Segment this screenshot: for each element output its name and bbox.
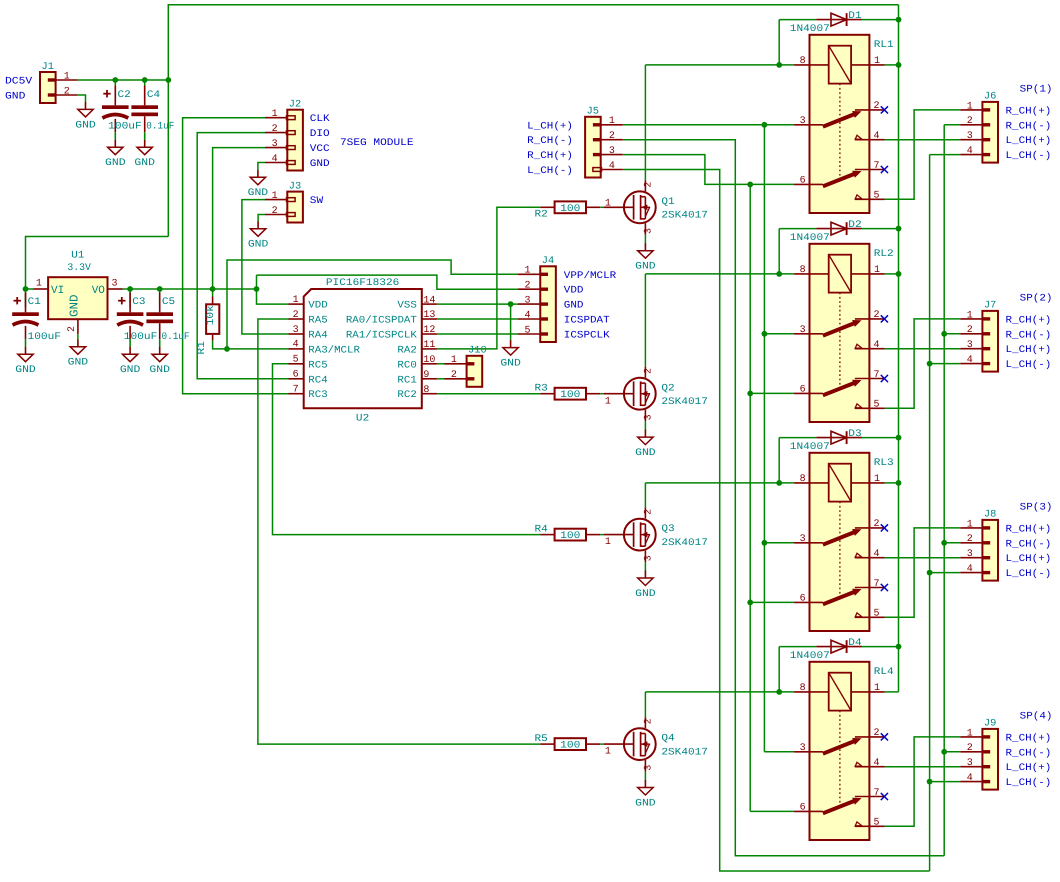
wire R_CH(-) right bus vertical [943,125,945,856]
wire Q1 source to GND [644,235,646,245]
svg-text:RL4: RL4 [874,667,894,678]
ground of C4 [134,140,155,169]
wire RL2 pin 8 to Q2 drain [645,273,794,275]
svg-text:100: 100 [560,204,580,215]
wire Q3 drain vertical [644,483,646,508]
svg-text:VSS: VSS [397,301,416,312]
svg-text:PIC16F18326: PIC16F18326 [326,278,400,289]
svg-text:GND: GND [310,159,330,170]
resistor R3 100 [540,388,600,401]
wire to C5 [159,289,161,307]
svg-text:2: 2 [967,116,973,127]
wire J1 pin 2 to GND [78,95,86,102]
wire R to Q4 gate [600,743,604,745]
svg-text:C4: C4 [147,90,160,101]
wire RL4 pin 1 to +5V bus [885,691,899,693]
svg-text:5: 5 [873,400,879,411]
svg-text:1: 1 [874,56,880,67]
wire D2 anode vertical [778,229,780,274]
svg-text:1: 1 [272,191,278,202]
ground Q2 source [635,430,656,459]
svg-text:4: 4 [873,340,879,351]
wire R to Q2 gate [600,393,604,395]
wire to C4 [144,80,146,101]
resistor R1 10k [205,297,219,341]
svg-text:RA0/ICSPDAT: RA0/ICSPDAT [346,315,417,327]
svg-text:GND: GND [635,262,656,273]
svg-text:SP(2): SP(2) [1020,293,1053,305]
ground of C3 [120,347,141,376]
svg-text:10k: 10k [205,305,217,325]
ground J4 pin 3 [500,340,521,369]
svg-text:1: 1 [36,278,42,289]
regulator U1 3.3V [33,277,122,334]
wire RC0 to J10 pin 1 [437,363,445,365]
wire 3.3V rail [123,288,257,290]
wire D1 cathode to +5V bus [862,19,899,21]
svg-text:GND: GND [564,301,584,312]
wire CLK J2.1 to RC3 [183,118,289,394]
svg-text:RC1: RC1 [397,375,416,386]
svg-text:4: 4 [873,131,879,142]
svg-text:7: 7 [873,161,879,172]
wire R_CH(-) bus to J7 pin 2 [944,333,960,335]
svg-text:2: 2 [967,534,973,545]
svg-text:R_CH(+): R_CH(+) [1006,732,1052,744]
svg-text:1: 1 [272,109,278,120]
transistor Q4 2SK4017 [604,717,656,772]
svg-text:4: 4 [967,564,973,575]
svg-text:3: 3 [967,340,973,351]
relay RL3 [794,453,885,631]
svg-text:J2: J2 [289,100,301,111]
svg-text:2SK4017: 2SK4017 [661,397,708,408]
svg-text:4: 4 [873,758,879,769]
svg-text:1: 1 [967,728,973,739]
capacitor C4 0.1uF [131,86,158,140]
no-connect X on RL4 pin 7 [881,793,888,800]
svg-text:RC0: RC0 [397,360,416,371]
wire VDD to U2 pin 1 [257,275,289,304]
svg-text:1: 1 [874,683,880,694]
svg-text:100uF: 100uF [28,332,62,343]
svg-text:R2: R2 [535,210,548,221]
svg-text:7SEG MODULE: 7SEG MODULE [340,138,414,149]
svg-text:D3: D3 [848,429,861,440]
microcontroller U2 PIC16F18326 [289,289,437,408]
wire L_CH(-) bus to J9 pin 4 [930,781,961,783]
svg-text:GND: GND [5,91,25,102]
svg-text:2: 2 [609,131,615,142]
svg-text:3: 3 [293,325,299,336]
svg-text:8: 8 [800,474,806,485]
svg-text:5: 5 [293,355,299,366]
svg-text:11: 11 [423,340,435,351]
svg-text:4: 4 [873,549,879,560]
no-connect X on RL1 pin 2 [881,106,888,113]
ground J2 pin 4 [248,170,269,199]
wire D4 anode [779,646,816,648]
wire R to Q1 gate [600,206,604,208]
svg-text:1N4007: 1N4007 [790,442,830,453]
svg-text:3: 3 [609,146,615,157]
wire L_CH(-) right bus vertical [929,155,931,871]
svg-text:1: 1 [605,747,611,758]
svg-text:L_CH(+): L_CH(+) [1006,344,1052,356]
capacitor C3 100uF [117,293,144,347]
svg-text:3.3V: 3.3V [67,263,91,274]
svg-text:1: 1 [967,310,973,321]
wire D1 anode [779,19,816,21]
wire to C2 [114,80,116,101]
connector J8 SP(3) [960,519,998,580]
wire R_CH(+) bus vertical [749,184,751,811]
svg-text:GND: GND [68,295,82,318]
svg-text:1: 1 [64,71,70,82]
wire RL4 pin 5 to J9 pin 1 [885,737,961,826]
wire RL2 pin 1 to +5V bus [885,273,899,275]
wire Q2 drain vertical [644,274,646,367]
svg-text:R3: R3 [535,383,548,394]
svg-text:2: 2 [643,368,654,374]
svg-text:6: 6 [800,176,806,187]
wire to RL3 pin 3 [764,542,794,544]
svg-text:U1: U1 [71,251,84,262]
ground U1 pin 2 [68,339,89,368]
wire RL2 pin 5 to J7 pin 1 [885,319,961,408]
svg-text:J1: J1 [42,62,54,73]
svg-text:GND: GND [248,188,269,199]
svg-text:2: 2 [67,326,78,332]
diode D4 1N4007 [816,640,862,653]
wire RA5 to R5 [258,319,541,744]
svg-text:1: 1 [451,355,457,366]
svg-text:4: 4 [967,146,973,157]
ground Q3 source [635,571,656,600]
wire J3.2 to GND [258,215,266,222]
svg-text:GND: GND [635,798,656,809]
wire to RL4 pin 3 [764,751,794,753]
svg-text:C3: C3 [132,297,145,308]
svg-text:8: 8 [800,56,806,67]
svg-text:GND: GND [149,365,170,376]
svg-text:4: 4 [293,340,299,351]
svg-text:2: 2 [967,325,973,336]
svg-text:5: 5 [873,818,879,829]
svg-text:3: 3 [643,414,654,420]
wire RA2 to R2 [437,207,541,349]
wire D2 cathode to +5V bus [862,228,899,230]
svg-text:RC2: RC2 [397,390,416,401]
svg-text:2: 2 [525,281,531,292]
connector J7 SP(2) [960,310,998,371]
svg-text:Q2: Q2 [661,383,674,394]
svg-text:4: 4 [967,773,973,784]
svg-text:RA3/MCLR: RA3/MCLR [308,344,360,356]
wire D4 anode vertical [778,647,780,692]
wire L_CH(-) bus to J7 pin 4 [930,363,961,365]
svg-text:3: 3 [800,743,806,754]
svg-text:3: 3 [643,555,654,561]
svg-text:GND: GND [15,365,36,376]
svg-text:4: 4 [609,161,615,172]
wire VSS to GND [510,304,512,340]
svg-text:14: 14 [423,295,435,306]
svg-text:6: 6 [800,803,806,814]
wire VSS to J4 pin 3 [437,303,519,305]
svg-text:GND: GND [105,158,126,169]
wire to C3 [129,289,131,307]
svg-text:GND: GND [75,120,96,131]
resistor R4 100 [540,529,600,542]
wire RA1/ICSPCLK to J4 pin 5 [437,333,519,335]
wire DIO J2.2 to RC4 [197,133,288,379]
wire L_CH(-) bus to J8 pin 4 [930,572,961,574]
svg-text:2: 2 [643,182,654,188]
svg-text:R_CH(-): R_CH(-) [1006,747,1052,759]
svg-text:100: 100 [560,531,580,542]
svg-text:2: 2 [643,509,654,515]
svg-text:4: 4 [967,355,973,366]
wire U1 pin 2 to GND [77,334,79,339]
svg-text:R_CH(-): R_CH(-) [1006,329,1052,341]
wire R_CH(-) bus to J9 pin 2 [944,751,960,753]
svg-text:C2: C2 [118,90,131,101]
wire SW J3.1 to RA4 [242,200,289,334]
svg-text:3: 3 [643,228,654,234]
svg-text:4: 4 [525,310,531,321]
svg-text:L_CH(-): L_CH(-) [1006,777,1052,789]
svg-text:L_CH(-): L_CH(-) [527,165,573,177]
svg-text:GND: GND [635,589,656,600]
svg-text:1: 1 [525,266,531,277]
wire Q2 source to GND [644,421,646,431]
svg-text:VPP/MCLR: VPP/MCLR [564,270,616,282]
resistor R2 100 [540,201,600,214]
svg-text:J9: J9 [984,719,996,730]
wire RL2 pin 4 to J7 pin 3 [885,348,961,350]
svg-text:5: 5 [873,609,879,620]
svg-text:1: 1 [874,474,880,485]
svg-text:4: 4 [272,154,278,165]
svg-text:VDD: VDD [308,301,327,312]
wire RL1 pin 4 to J6 pin 3 [885,139,961,141]
svg-text:RA2: RA2 [397,345,416,356]
relay RL4 [794,662,885,840]
wire VCC J2.3 to 3.3V rail [213,148,266,289]
wire R_CH(-) bus to J8 pin 2 [944,542,960,544]
svg-text:1: 1 [967,101,973,112]
svg-text:GND: GND [120,365,141,376]
svg-text:100uF: 100uF [108,121,142,132]
svg-text:VI: VI [51,285,64,297]
capacitor C5 0.1uF [146,293,173,347]
svg-text:R_CH(-): R_CH(-) [1006,120,1052,132]
no-connect X on RL3 pin 7 [881,584,888,591]
svg-text:3: 3 [272,139,278,150]
svg-text:CLK: CLK [310,114,330,125]
svg-text:J7: J7 [984,301,996,312]
svg-text:C1: C1 [28,297,41,308]
no-connect X on RL2 pin 2 [881,315,888,322]
wire D1 anode vertical [778,20,780,65]
svg-text:SP(3): SP(3) [1020,502,1053,514]
wire RL4 pin 4 to J9 pin 3 [885,766,961,768]
svg-text:J8: J8 [984,510,996,521]
svg-text:3: 3 [525,296,531,307]
svg-text:5: 5 [525,325,531,336]
svg-text:1: 1 [605,537,611,548]
svg-text:1: 1 [967,519,973,530]
svg-text:RA4: RA4 [308,331,327,342]
wire J2.4 to GND [258,163,266,171]
wire MCLR net to J4 pin 1 [227,260,519,349]
relay RL2 [794,244,885,422]
svg-text:2: 2 [643,718,654,724]
svg-text:VDD: VDD [564,286,584,297]
svg-text:100: 100 [560,390,580,401]
wire +5V down to U1 [26,237,169,290]
svg-text:D2: D2 [848,220,861,231]
svg-text:13: 13 [423,310,435,321]
svg-text:U2: U2 [356,414,369,425]
ground of C2 [105,140,126,169]
resistor R5 100 [540,738,600,751]
svg-text:SP(1): SP(1) [1020,84,1053,96]
transistor Q1 2SK4017 [604,180,656,235]
wire RL3 pin 1 to +5V bus [885,482,899,484]
svg-text:GND: GND [134,158,155,169]
svg-text:10: 10 [423,355,435,366]
svg-text:100uF: 100uF [124,332,158,343]
svg-text:3: 3 [643,765,654,771]
diode D2 1N4007 [816,222,862,235]
svg-text:SW: SW [310,196,323,207]
svg-text:7: 7 [873,788,879,799]
wire RL3 pin 4 to J8 pin 3 [885,557,961,559]
svg-text:L_CH(-): L_CH(-) [1006,359,1052,371]
svg-text:C5: C5 [162,297,175,308]
svg-text:RA5: RA5 [308,316,327,327]
wire Q4 source to GND [644,772,646,782]
svg-text:RC4: RC4 [308,375,327,386]
ground of C1 [15,347,36,376]
wire R1 bottom to RA3 [213,340,289,349]
connector J4 ICSP [518,266,556,342]
wire D3 cathode to +5V bus [862,437,899,439]
svg-text:2: 2 [272,124,278,135]
wire RL3 pin 5 to J8 pin 1 [885,528,961,617]
wire RC2 to R3 [437,393,541,395]
svg-text:2: 2 [873,101,879,112]
svg-text:1: 1 [605,199,611,210]
no-connect X on RL1 pin 7 [881,166,888,173]
svg-text:RA1/ICSPCLK: RA1/ICSPCLK [346,330,417,342]
svg-text:6: 6 [800,594,806,605]
capacitor C2 100uF [102,86,129,140]
no-connect X on RL2 pin 7 [881,375,888,382]
wire Q4 drain vertical [644,692,646,717]
svg-text:DIO: DIO [310,129,330,140]
wire D3 anode [779,437,816,439]
no-connect X on RL4 pin 2 [881,733,888,740]
svg-text:R1: R1 [197,341,208,354]
svg-text:RL3: RL3 [874,458,894,469]
svg-text:R4: R4 [535,524,548,535]
wire to RL2 pin 6 [750,392,794,394]
wire L_CH(-) bus to J6 pin 4 [930,154,961,156]
svg-text:R_CH(+): R_CH(+) [1006,314,1052,326]
wire R_CH(-) J5.2 bottom bus [623,140,944,856]
wire R_CH(-) bus to J6 pin 2 [944,124,960,126]
connector J6 SP(1) [960,101,998,162]
svg-text:1: 1 [874,265,880,276]
wire RL4 pin 8 to Q4 drain [645,691,794,693]
wire RL1 pin 5 to J6 pin 1 [885,110,961,199]
svg-text:J5: J5 [587,107,599,118]
svg-text:L_CH(+): L_CH(+) [1006,135,1052,147]
svg-text:GND: GND [248,240,269,251]
ground of C5 [149,347,170,376]
wire D2 anode [779,228,816,230]
wire to RL4 pin 6 [750,810,794,812]
wire U1 VI [26,288,34,290]
svg-text:VO: VO [92,285,106,297]
svg-text:6: 6 [293,370,299,381]
transistor Q2 2SK4017 [604,367,656,422]
wire to R1 top [212,289,214,297]
svg-text:2: 2 [873,728,879,739]
svg-text:Q4: Q4 [661,734,674,745]
svg-text:2SK4017: 2SK4017 [661,211,708,222]
svg-text:J4: J4 [542,256,554,267]
svg-text:7: 7 [873,370,879,381]
wire RA0/ICSPDAT to J4 pin 4 [437,318,519,320]
svg-text:R_CH(-): R_CH(-) [527,135,573,147]
svg-text:L_CH(+): L_CH(+) [1006,553,1052,565]
svg-text:5: 5 [873,191,879,202]
svg-text:1: 1 [605,396,611,407]
svg-text:L_CH(-): L_CH(-) [1006,568,1052,580]
connector J2 7SEG [265,109,303,170]
wire R to Q3 gate [600,534,604,536]
svg-text:2: 2 [873,519,879,530]
transistor Q3 2SK4017 [604,508,656,562]
svg-text:R5: R5 [535,734,548,745]
svg-text:8: 8 [800,683,806,694]
svg-text:0.1uF: 0.1uF [146,121,174,132]
svg-text:RC3: RC3 [308,390,327,401]
svg-text:ICSPCLK: ICSPCLK [564,331,610,342]
wire D4 cathode to +5V bus [862,646,899,648]
svg-text:3: 3 [800,534,806,545]
svg-text:J6: J6 [984,92,996,103]
svg-text:3: 3 [111,278,117,289]
svg-text:J10: J10 [468,346,487,357]
svg-text:DC5V: DC5V [5,76,32,87]
diode D1 1N4007 [816,13,862,26]
svg-text:1N4007: 1N4007 [790,651,830,662]
svg-text:1: 1 [609,116,615,127]
svg-text:7: 7 [293,385,299,396]
wire RC5 to R4 [273,364,541,535]
svg-text:D1: D1 [848,11,861,22]
capacitor C1 100uF [12,293,39,347]
svg-text:1: 1 [293,295,299,306]
svg-text:L_CH(+): L_CH(+) [1006,762,1052,774]
svg-text:0.1uF: 0.1uF [162,332,190,343]
wire D3 anode vertical [778,438,780,483]
